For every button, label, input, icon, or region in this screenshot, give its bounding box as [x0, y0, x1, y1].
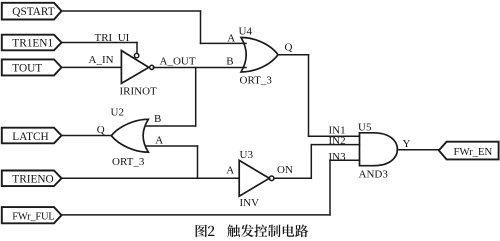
svg-text:TR1EN1: TR1EN1: [12, 37, 53, 49]
svg-text:B: B: [154, 113, 161, 125]
IRINOT output bubble: [150, 65, 154, 69]
svg-text:FWr_FUL: FWr_FUL: [12, 211, 54, 222]
svg-text:A: A: [155, 135, 163, 147]
svg-text:A: A: [226, 165, 234, 177]
svg-text:Q: Q: [97, 124, 105, 136]
wire IN3 into U5: [330, 159, 360, 161]
port tag TRIENO: [2, 171, 62, 187]
svg-text:A_OUT: A_OUT: [160, 56, 196, 68]
U3 output bubble: [269, 176, 274, 181]
svg-text:U5: U5: [358, 121, 372, 133]
port tag QSTART: [2, 3, 62, 20]
svg-text:Q: Q: [285, 41, 293, 53]
svg-text:Y: Y: [403, 138, 411, 150]
wire U2 pin B horizontal: [146, 125, 196, 127]
port tag FWr_FUL: [2, 207, 62, 223]
wire A_OUT to U4 pin B: [153, 67, 246, 69]
svg-text:AND3: AND3: [359, 168, 389, 180]
svg-text:A: A: [227, 32, 235, 44]
svg-text:LATCH: LATCH: [12, 131, 48, 143]
wire QSTART horizontal: [62, 10, 201, 12]
wire IN2 into U5: [311, 144, 359, 146]
caption 图2 触发控制电路: [196, 225, 309, 238]
tri-state enable bubble: [134, 53, 138, 57]
svg-text:IRINOT: IRINOT: [120, 86, 158, 98]
svg-text:ORT_3: ORT_3: [112, 156, 145, 168]
svg-text:ORT_3: ORT_3: [240, 74, 273, 86]
svg-text:A_IN: A_IN: [89, 54, 114, 66]
wire LATCH to U2 output Q: [62, 135, 112, 137]
wire ON up to IN2: [310, 145, 312, 179]
port tag TRIEN1: [2, 35, 62, 51]
wire TRIEN1 horizontal: [62, 42, 138, 44]
svg-text:TRIENO: TRIENO: [12, 174, 53, 186]
svg-text:ON: ON: [277, 164, 293, 176]
or-gate U2 (mirrored, points left): [111, 119, 148, 152]
tri-state inverter IRINOT triangle: [121, 51, 148, 84]
wire enable drop to bubble: [136, 43, 138, 54]
svg-text:TRI_UI: TRI_UI: [95, 32, 130, 44]
wire U2 pin A horizontal: [147, 145, 198, 147]
svg-text:IN2: IN2: [329, 135, 346, 147]
wire IN1 into U5: [309, 135, 360, 137]
port tag LATCH: [2, 128, 62, 144]
svg-text:U3: U3: [240, 149, 254, 161]
wire QSTART vertical drop: [200, 11, 202, 43]
wire U4 Q down to IN1: [308, 55, 310, 137]
wire FWr_FUL horizontal: [62, 214, 331, 216]
wire to U4 pin A: [201, 42, 247, 44]
svg-text:U2: U2: [111, 106, 124, 118]
or-gate U4: [241, 38, 278, 73]
and-gate U5: [360, 133, 398, 166]
svg-text:U4: U4: [239, 25, 253, 37]
wire TOUT A_IN: [62, 66, 122, 68]
svg-text:IN3: IN3: [329, 151, 347, 163]
wire ON output: [274, 177, 311, 179]
wire FWr_FUL up to IN3: [329, 160, 331, 215]
wire U2 pin A down to TRIENO net: [197, 146, 199, 178]
wire A_OUT branch down to U2 pin B: [195, 68, 197, 127]
port tag TOUT: [2, 59, 62, 75]
svg-text:B: B: [226, 55, 233, 67]
svg-text:QSTART: QSTART: [12, 6, 54, 18]
inverter U3 triangle: [239, 160, 269, 196]
svg-text:INV: INV: [240, 197, 260, 209]
wire TRIENO to U3 input: [62, 177, 240, 179]
wire U4 Q output: [278, 54, 309, 56]
svg-text:FWr_EN: FWr_EN: [454, 146, 493, 158]
port tag FWr_EN: [439, 142, 499, 160]
wire U5 Y output to FWr_EN: [397, 149, 438, 151]
svg-text:TOUT: TOUT: [12, 62, 42, 74]
